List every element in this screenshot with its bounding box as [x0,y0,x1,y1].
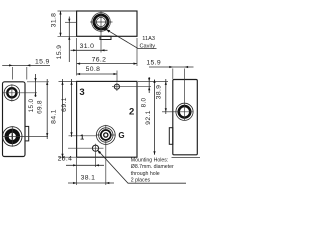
right view left edge ext up [172,69,174,80]
top body left edge extension down [76,38,78,76]
right view port centerline ext left [162,111,176,113]
right view port centerline ext up [184,69,186,121]
svg-text:2 places: 2 places [131,177,151,183]
left view top port outer [4,85,20,101]
dim 31.8 line [60,11,62,36]
dim 50.8 line [77,73,117,75]
left view bottom port center ext [22,136,48,138]
cavity locating dot [104,27,107,30]
dim 92.1 line [154,80,156,155]
svg-text:92.1: 92.1 [145,110,152,125]
dim 25.4 line [66,164,104,166]
front top edge ext right [138,80,168,82]
svg-text:Mounting Holes:: Mounting Holes: [131,158,169,164]
mounting hole top-right [114,84,119,89]
dim 15.9 right line [149,66,194,68]
left view bottom port ring [7,131,18,142]
top view body outline [77,11,137,36]
svg-text:15.0: 15.0 [28,99,35,113]
G port ring [101,130,111,140]
cavity crosshair [90,12,113,33]
svg-text:25.4: 25.4 [58,156,73,163]
G port center plug [104,133,108,137]
left view top edge ext right [27,81,49,83]
G port outer circle [96,126,115,145]
svg-text:Cavity: Cavity [140,43,156,49]
svg-text:69.8: 69.8 [36,100,43,114]
svg-text:15.9: 15.9 [56,45,63,60]
left view boss tab [25,126,29,140]
top view port-G boss notch [100,36,111,39]
svg-text:3: 3 [79,87,84,98]
G port center ext down [105,145,107,185]
mounting hole bottom-left centerline [68,144,104,153]
svg-text:11A3: 11A3 [142,36,155,42]
svg-text:84.1: 84.1 [50,109,57,124]
svg-text:Ø8.7mm. diameter: Ø8.7mm. diameter [131,164,174,170]
leader to cavity label [107,30,157,49]
G port middle circle [99,128,113,142]
svg-text:76.2: 76.2 [92,56,107,63]
dim 31.8 extension lines [58,11,77,36]
svg-text:15.9: 15.9 [146,59,161,66]
mounting hole bottom-left ext down [95,153,97,167]
dim 15.9 left-view line [2,64,50,66]
G port centerline ext left [69,135,97,137]
mounting hole bottom-left [92,145,98,151]
svg-text:1: 1 [80,133,84,142]
dim 15.9 top-left extension [65,21,77,23]
svg-text:8.0: 8.0 [140,97,147,107]
dim 31.0 line [71,49,108,51]
dim 76.2 line [77,63,137,65]
right view boss tab [169,128,173,145]
top body right edge extension down [136,38,138,66]
dim 38.1 line [68,182,114,184]
svg-text:15.9: 15.9 [35,58,50,65]
dim 69.1 line [71,79,73,137]
dim 8.0 line [148,77,150,93]
svg-text:38.1: 38.1 [81,175,96,182]
svg-text:through hole: through hole [131,171,160,177]
left view bottom port center mark [12,133,13,139]
front view top edge ext left [59,80,77,82]
cavity inner circle [96,17,105,26]
cavity center extension down [100,27,102,53]
front view body outline [77,81,137,157]
mounting hole extension up [116,71,118,82]
dim 84.1 line [62,79,64,160]
G port crosshair ticks [96,125,116,145]
dim 15.9 top-left line [68,17,70,63]
cavity ring [94,15,108,29]
svg-text:50.8: 50.8 [86,66,101,73]
right view port ring [179,106,191,118]
left view top port crosshair [3,84,21,101]
dim 38.9 line [165,79,167,114]
dim 15.9 left-view ext lines [13,67,27,80]
right view port crosshair [176,111,193,113]
dim 69.8 line [46,79,48,139]
left view bottom port crosshair [3,126,22,147]
front view bottom edge ext left [59,156,77,158]
right view body outline [173,80,198,155]
front left edge ext down [76,158,78,185]
left view bottom port outer [3,127,22,146]
svg-text:31.8: 31.8 [51,13,58,28]
dim 15.0 line [35,74,37,97]
left view body outline [3,82,26,157]
svg-text:G: G [118,131,124,140]
right view bottom edge ext left [146,154,159,156]
svg-text:69.1: 69.1 [61,97,68,112]
svg-text:31.0: 31.0 [80,43,95,50]
svg-text:2: 2 [129,107,134,118]
left view top port center ext [21,92,37,94]
mounting hole top-right centerline [112,83,151,92]
mounting holes note leader [98,151,186,183]
left view top port ring [7,88,16,97]
cavity outer circle [92,13,111,32]
right view port outer [176,103,193,120]
svg-text:38.9: 38.9 [156,85,163,100]
